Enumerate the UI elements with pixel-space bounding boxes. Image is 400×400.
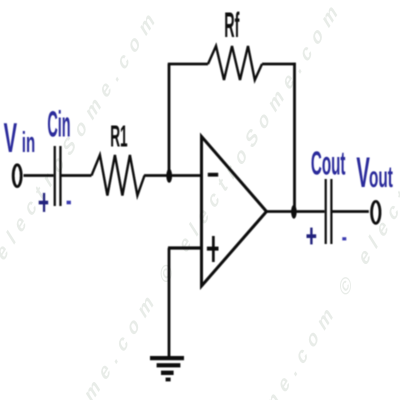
svg-text:V: V [4,114,17,161]
svg-text:V: V [356,150,370,197]
svg-text:Cout: Cout [311,146,346,182]
svg-text:Rf: Rf [224,6,239,45]
svg-text:out: out [369,161,393,194]
svg-text:Cin: Cin [47,104,70,145]
svg-text:in: in [22,126,35,159]
svg-text:R1: R1 [110,119,127,154]
